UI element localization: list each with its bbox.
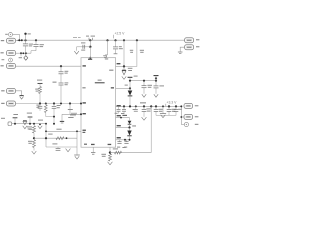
pin numbers right inside	[111, 87, 114, 88]
wire input line	[16, 65, 82, 67]
wire to ground x77	[76, 47, 78, 51]
wire out corner	[180, 106, 182, 124]
junction x61 y103	[60, 103, 62, 105]
wire x70 drop	[69, 104, 71, 115]
junction y140	[117, 137, 121, 139]
ground R7	[108, 162, 113, 165]
wire mid y138	[34, 137, 77, 139]
svg-text:+3.3 V: +3.3 V	[167, 101, 178, 105]
junction bus x115.5	[114, 39, 116, 41]
wire J12 ground	[180, 47, 184, 51]
wire pin x110 down	[109, 147, 111, 152]
resistor R4	[33, 126, 36, 133]
capacitor C13b	[135, 106, 137, 109]
capacitor C1	[25, 40, 27, 44]
capacitor C17	[175, 106, 177, 109]
capacitor C10	[143, 81, 145, 86]
wire loop left	[45, 124, 47, 147]
wire VIN pin	[89, 47, 91, 58]
label x137 left	[130, 50, 133, 51]
power flag x156	[154, 75, 159, 77]
wire r2-c6 join	[46, 116, 54, 118]
junction x93 y46	[89, 46, 91, 48]
capacitor C18	[119, 140, 121, 142]
wire input bottom line	[12, 123, 46, 125]
junction x70 y103	[69, 102, 71, 104]
diode D2 zener	[123, 66, 125, 70]
resistor R3 series	[71, 113, 77, 116]
wire x137 down corner	[124, 40, 137, 66]
wire out3	[181, 124, 184, 126]
ground C14	[142, 117, 147, 120]
wire y46 branch	[77, 46, 91, 48]
connector J10 out	[184, 122, 188, 126]
wire pin line y114	[62, 113, 81, 115]
pin label y66 inside	[117, 63, 121, 64]
power flag R pull-up	[37, 80, 42, 81]
connector J2	[7, 38, 16, 43]
junction x61 y66	[60, 65, 62, 67]
capacitor C3 on x61	[59, 71, 64, 73]
junction x130 y88	[129, 87, 131, 89]
pin number top	[105, 58, 108, 59]
power flag x130	[128, 76, 133, 78]
junction rail x124	[123, 105, 125, 107]
capacitor C5	[39, 104, 41, 107]
junction bus x124	[123, 39, 125, 41]
junction x40 ground mark	[38, 120, 43, 121]
connector J11	[185, 38, 194, 43]
junction loop left top	[45, 130, 47, 132]
junction x46 y123	[45, 123, 47, 125]
capacitor C11	[155, 81, 157, 86]
inductor L1 on bus	[88, 38, 90, 40]
connector J9 out	[184, 114, 193, 119]
pin number x110	[108, 144, 112, 145]
ground R5	[32, 151, 37, 154]
capacitor C1 bottom tie	[25, 50, 27, 53]
ground C11	[154, 94, 158, 97]
ground loop right	[76, 150, 78, 155]
capacitor C7	[57, 147, 59, 148]
pin mark top x106	[106, 56, 108, 58]
wire right riser	[150, 106, 152, 152]
pin label y88 inside	[109, 70, 113, 71]
junction rail x137b	[135, 105, 137, 107]
wire bottom line	[110, 152, 151, 154]
ground chevron loop	[66, 149, 71, 152]
junction rail x151	[150, 105, 152, 107]
junction diode top	[123, 65, 125, 67]
connector J4 (small)	[9, 58, 13, 62]
diode D4a	[129, 118, 131, 121]
wire main 5V bus	[17, 39, 185, 41]
junction bus x21	[21, 39, 23, 41]
label loop bottom	[52, 143, 57, 144]
junction left edge pins	[80, 103, 82, 105]
junction bus x19	[18, 39, 20, 41]
label below TP2	[27, 126, 32, 127]
junction bus x107.5	[106, 39, 108, 41]
junction bus x93	[89, 39, 91, 41]
junction y119	[120, 117, 122, 119]
ground C10	[142, 94, 146, 97]
power flag TP2	[27, 113, 32, 114]
junction rail x144	[143, 80, 145, 82]
label y119	[117, 115, 121, 116]
resistor R6 series	[115, 151, 122, 154]
junction VIN	[89, 57, 91, 59]
junction y127	[128, 126, 130, 128]
capacitor C2	[35, 40, 37, 44]
IC U1 box	[81, 58, 116, 148]
junction loop right top	[76, 130, 78, 132]
junction bus x25.5	[24, 39, 26, 41]
capacitor C8 series	[82, 45, 84, 49]
crystal X1	[48, 134, 52, 135]
pin number x93	[91, 144, 95, 145]
junction rail x169	[168, 105, 170, 107]
wire pin y119	[116, 117, 130, 119]
wire J6 to ground	[16, 91, 22, 96]
label C above rail	[140, 102, 146, 103]
pin numbers left inside	[83, 65, 86, 66]
pin label gnd rail	[117, 105, 121, 107]
wire C2 bottom to row2	[31, 50, 36, 52]
capacitor C13	[123, 106, 125, 109]
connector J3	[7, 50, 16, 55]
resistor R7 down	[109, 154, 112, 161]
wire mid line	[16, 103, 82, 105]
connector J5	[7, 63, 16, 68]
wire pin y88	[116, 87, 130, 89]
junction loop left mid	[45, 137, 47, 139]
junction rail x130b	[129, 105, 131, 107]
ground pin line	[60, 120, 64, 122]
wire pin y127	[116, 127, 130, 129]
ground J12	[178, 51, 183, 53]
resistor R2	[45, 104, 47, 105]
power flag TP1	[13, 117, 18, 119]
wire L1 down	[89, 40, 91, 47]
label series	[13, 114, 18, 115]
ground x105	[103, 55, 107, 57]
wire x124 down	[123, 40, 125, 66]
connector J1 (RCA top)	[9, 33, 13, 37]
junction row2 x20.5	[20, 52, 22, 54]
wire row2	[16, 52, 32, 54]
wire loop right	[76, 131, 78, 150]
wire mid rail	[130, 80, 156, 82]
junction rail x130	[129, 80, 131, 82]
IC U1 label	[98, 80, 102, 81]
capacitor C9	[115, 40, 117, 47]
connector J8 out	[184, 103, 193, 108]
connector J7	[7, 101, 16, 106]
junction x54 y103	[53, 102, 55, 104]
label y127	[117, 125, 121, 126]
junction x110 y152	[109, 151, 111, 153]
label D2	[128, 68, 133, 69]
junction bus x36	[35, 39, 37, 41]
diode D4	[127, 131, 131, 136]
capacitor C4 on x61	[59, 82, 64, 84]
junction bus x137	[136, 39, 138, 41]
capacitor C12	[118, 106, 120, 109]
diode D1 to ground	[23, 120, 27, 122]
junction out	[180, 105, 182, 107]
wire cap bottoms	[156, 114, 176, 116]
ground J6	[20, 95, 24, 97]
node port diamond	[25, 53, 27, 55]
wire corner to ground	[61, 114, 63, 121]
wire gnd rail	[116, 105, 182, 107]
junction rail x156	[155, 80, 157, 82]
capacitor C15	[155, 106, 157, 109]
capacitor C14	[143, 106, 145, 109]
resistor R1 pull-up	[39, 83, 41, 86]
power flag VBUS	[24, 33, 26, 35]
connector J12	[185, 45, 194, 50]
junction rail x162	[162, 105, 164, 107]
diode D3 LED	[129, 81, 131, 91]
junction rail x176	[175, 105, 177, 107]
junction x34 y138	[33, 137, 35, 139]
ground rail out	[162, 106, 164, 113]
junction x46 y103	[45, 103, 47, 105]
wire x107 down	[105, 40, 107, 55]
wire J2 to bus	[16, 40, 22, 42]
wire pin y66	[116, 65, 124, 67]
label x137 right	[140, 50, 144, 51]
wire loop top	[46, 130, 81, 132]
capacitor C6	[53, 104, 55, 107]
ground pin x93	[92, 147, 94, 152]
resistor R5	[33, 140, 36, 148]
ground x77	[74, 51, 79, 54]
capacitor C19	[126, 140, 128, 142]
label above bus x75	[73, 36, 77, 39]
capacitor C16	[168, 106, 170, 109]
junction row2 x25	[22, 52, 24, 54]
junction x40 y103	[39, 102, 41, 104]
junction rail x144b	[143, 105, 145, 107]
wire J1 to bus	[13, 34, 20, 40]
junction rail x156b	[155, 105, 157, 107]
wire pin y140	[116, 139, 130, 141]
connector J6	[7, 88, 16, 93]
wire x61 vertical	[60, 66, 62, 71]
junction x34 y123	[33, 123, 35, 125]
svg-text:+2.5 V: +2.5 V	[115, 32, 126, 36]
wire out2	[181, 116, 184, 118]
wire loop bottom	[46, 146, 77, 148]
pad P1	[8, 122, 12, 126]
